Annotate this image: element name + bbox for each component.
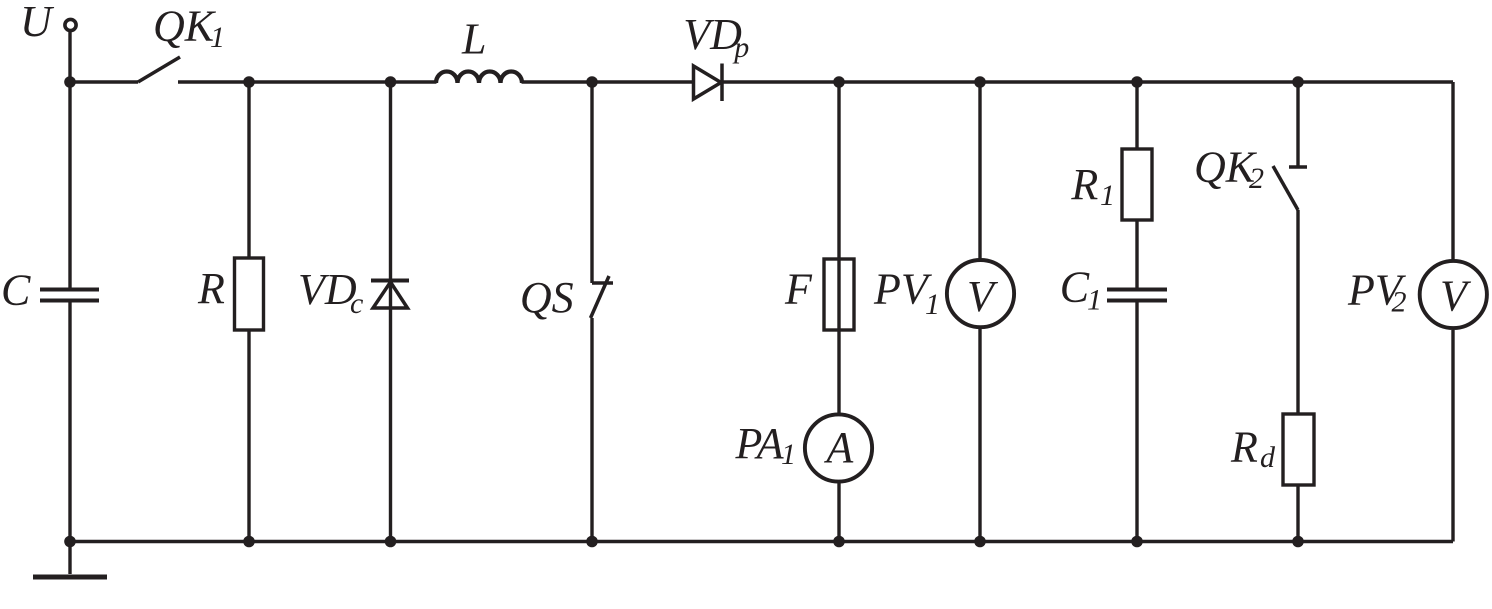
- svg-text:1: 1: [781, 438, 796, 471]
- svg-text:QK: QK: [153, 2, 217, 51]
- svg-text:L: L: [461, 15, 486, 64]
- svg-text:1: 1: [210, 21, 225, 54]
- svg-text:U: U: [20, 0, 55, 46]
- svg-text:d: d: [1260, 441, 1276, 474]
- svg-text:QS: QS: [520, 273, 574, 322]
- svg-text:F: F: [784, 265, 813, 314]
- svg-text:C: C: [1, 265, 31, 314]
- svg-text:1: 1: [1100, 179, 1115, 212]
- svg-text:VD: VD: [298, 265, 357, 314]
- svg-text:1: 1: [1087, 284, 1102, 317]
- svg-text:R: R: [1230, 423, 1258, 472]
- svg-text:2: 2: [1392, 285, 1407, 318]
- svg-text:R: R: [1070, 160, 1098, 209]
- svg-text:R: R: [197, 264, 225, 313]
- svg-text:PA: PA: [735, 419, 785, 468]
- svg-text:PV: PV: [873, 265, 933, 314]
- svg-text:1: 1: [925, 288, 940, 321]
- svg-text:c: c: [350, 287, 363, 320]
- svg-text:p: p: [732, 31, 749, 64]
- svg-text:C: C: [1060, 263, 1090, 312]
- svg-text:A: A: [823, 423, 854, 472]
- svg-text:2: 2: [1249, 162, 1264, 195]
